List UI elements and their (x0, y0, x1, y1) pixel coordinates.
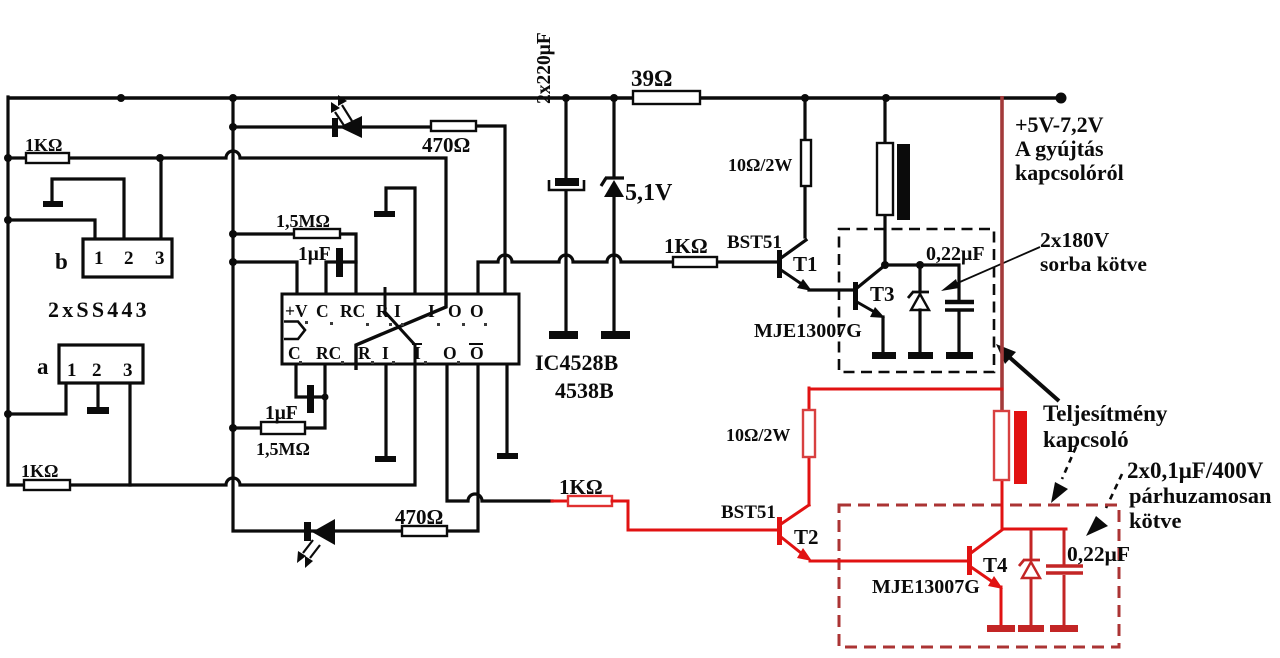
zener D4 triangle (911, 294, 929, 310)
svg-text:470Ω: 470Ω (422, 133, 470, 157)
IC subscript marks (299, 321, 487, 364)
ground bar below IC right (497, 453, 518, 459)
svg-text:O: O (443, 343, 457, 363)
node dot rail x614 (610, 94, 618, 102)
svg-text:10Ω/2W: 10Ω/2W (728, 155, 792, 175)
resistor 1K bottom-left (24, 480, 70, 490)
capacitor 2x220uF top plate (555, 178, 579, 186)
capacitor 1uF top plate bar (336, 248, 343, 277)
resistor 39 ohm (633, 91, 700, 104)
wire bottom ground pin R (384, 364, 387, 456)
svg-text:1KΩ: 1KΩ (664, 234, 708, 258)
node dot rail x233 (229, 94, 237, 102)
transistor T3 base bar (853, 282, 858, 310)
wire zener 5V1 branch (612, 98, 615, 331)
svg-text:4538B: 4538B (555, 378, 614, 403)
node dot zener top (916, 261, 924, 269)
svg-text:1,5MΩ: 1,5MΩ (276, 211, 330, 231)
wire red T4 emitter to ground (1000, 587, 1003, 625)
connector a box (59, 345, 143, 383)
node dot rail x805 (801, 94, 809, 102)
svg-text:I: I (394, 301, 401, 321)
node dot x233 y127 (229, 123, 237, 131)
LED D2 triangle (312, 519, 335, 545)
wire connector-a pin3 down (128, 383, 131, 485)
ground bar zener D4 (908, 352, 933, 359)
transistor T1 collector (781, 240, 806, 258)
wire T3 emitter to ground (881, 317, 884, 352)
wire bottom output to red with hop (447, 364, 552, 501)
svg-text:kötve: kötve (1129, 508, 1182, 533)
wire resistor885 branch (883, 98, 886, 265)
resistor 1.5M top (294, 229, 340, 238)
svg-text:1KΩ: 1KΩ (25, 135, 62, 155)
svg-text:R: R (358, 343, 371, 363)
connector b box (83, 239, 172, 277)
svg-text:C: C (316, 301, 329, 321)
svg-text:b: b (55, 249, 68, 274)
transistor T1 emitter (781, 270, 812, 291)
LED D1 triangle (339, 116, 362, 138)
wire connector-b pin3 up (159, 158, 162, 239)
thick black arrow to dashed box (996, 344, 1059, 401)
LED D1 arrow 2 (331, 102, 345, 127)
wire 10ohm top branch (803, 98, 806, 237)
wire red T2 emitter to T4 base (810, 560, 967, 563)
zener D5 red stem (1030, 529, 1033, 560)
wire long dark red vertical (1000, 96, 1004, 411)
svg-text:10Ω/2W: 10Ω/2W (726, 425, 790, 445)
ground bar T3 (872, 352, 896, 359)
transistor T2 emitter red (781, 537, 812, 561)
wire red top of 10ohm (809, 388, 1002, 391)
svg-text:MJE13007G: MJE13007G (754, 320, 862, 342)
zener D5 red bar (1019, 560, 1040, 566)
wire bottom LED row (306, 529, 402, 532)
capacitor 0.22uF bottom plate (945, 308, 974, 312)
node dot bottom cap junction (322, 394, 329, 401)
svg-text:RC: RC (316, 343, 341, 363)
svg-text:T3: T3 (870, 282, 895, 306)
svg-text:O: O (448, 301, 462, 321)
svg-text:39Ω: 39Ω (631, 66, 672, 91)
svg-text:1: 1 (67, 360, 77, 381)
ground bar below IC left (375, 456, 396, 462)
transistor T4 base bar red (967, 546, 972, 575)
resistor 10ohm 2W top (801, 140, 811, 186)
svg-text:a: a (37, 354, 49, 379)
svg-text:párhuzamosan: párhuzamosan (1129, 483, 1272, 508)
capacitor 2x220uF cup plate (549, 180, 584, 190)
svg-text:IC4528B: IC4528B (535, 350, 618, 375)
transistor T1 base bar (777, 250, 782, 278)
node dot x233 y262 (229, 258, 237, 266)
wire connector-b pin2 to ground (52, 179, 124, 239)
svg-text:1KΩ: 1KΩ (559, 475, 603, 499)
wire T1 emitter to T3 base (809, 288, 853, 291)
wire red from output 1K (552, 500, 568, 503)
dashed box lower red (839, 505, 1119, 647)
svg-text:3: 3 (155, 248, 165, 269)
resistor 470 top (431, 121, 476, 131)
transistor T2 base bar red (777, 517, 782, 545)
node dot rail x566 (562, 94, 570, 102)
LED D1 top cathode bar (332, 118, 338, 137)
zener D4 lower stem (918, 310, 921, 352)
LED D2 bottom cathode bar (304, 522, 311, 541)
zener D3 triangle (604, 180, 624, 197)
wire connector-b pin1 to left bus (8, 220, 95, 239)
resistor red tall right (994, 411, 1009, 480)
svg-text:2x180V: 2x180V (1040, 228, 1110, 252)
red solid bar beside resistor (1014, 411, 1027, 484)
transistor T4 collector red (971, 530, 1002, 553)
ground bar above IC (374, 211, 395, 217)
svg-text:RC: RC (340, 301, 365, 321)
wire +V pin (233, 262, 297, 294)
svg-text:I: I (382, 343, 389, 363)
dashed-stem arrow from Teljesitmeny (1051, 447, 1076, 503)
IC U1 4528 box (282, 294, 519, 364)
ground bar under zener (601, 331, 630, 339)
resistor 1K red (568, 496, 612, 506)
node dot x233 y234 (229, 230, 237, 238)
transistor T2 collector red (781, 505, 809, 524)
svg-text:MJE13007G: MJE13007G (872, 576, 980, 598)
svg-text:kapcsolóról: kapcsolóról (1015, 160, 1124, 185)
resistor 1K mid (673, 257, 717, 267)
svg-text:1μF: 1μF (298, 244, 331, 265)
svg-text:sorba kötve: sorba kötve (1040, 252, 1147, 276)
wire connector-a pin2 to ground (96, 383, 99, 407)
svg-text:2: 2 (92, 360, 102, 381)
svg-text:Teljesítmény: Teljesítmény (1043, 401, 1168, 426)
svg-text:A gyújtás: A gyújtás (1015, 136, 1104, 161)
svg-text:1: 1 (94, 248, 104, 269)
zener D3 5V1 bar (601, 178, 624, 186)
capacitor 0.22uF red stem top (1063, 529, 1066, 565)
node dot y158 x160 (156, 154, 164, 162)
resistor 1.5M bottom (261, 422, 305, 434)
wire top supply rail (8, 96, 1061, 100)
node dot x233 y428 (229, 424, 237, 432)
black bar beside resistor (897, 144, 910, 220)
svg-text:2: 2 (124, 248, 134, 269)
wire cross diagonal A inside IC (385, 287, 415, 364)
overbar O bottom (469, 343, 483, 345)
svg-text:kapcsoló: kapcsoló (1043, 427, 1129, 452)
svg-text:T1: T1 (793, 252, 818, 276)
wire bottom RC pin to 1.5M (305, 364, 325, 428)
wire red 1K to T2 base (612, 501, 777, 530)
svg-text:5,1V: 5,1V (625, 180, 673, 206)
zener D4 bar (908, 292, 929, 298)
wire 1uF top C-pin (326, 262, 356, 294)
wire connector-a pin1 to left bus (8, 383, 66, 414)
transistor T3 collector (857, 266, 884, 288)
svg-text:1KΩ: 1KΩ (21, 461, 58, 481)
svg-text:1μF: 1μF (265, 403, 298, 424)
svg-text:2xSS443: 2xSS443 (48, 297, 150, 322)
capacitor 0.22uF red plates (1046, 566, 1083, 573)
LED D2 arrow 1 (305, 545, 320, 568)
resistor 10ohm 2W bottom red (803, 410, 815, 457)
svg-text:0,22μF: 0,22μF (1067, 542, 1130, 566)
wire y158 from left 1K to IC pin with hop over x233 (8, 151, 446, 294)
ground bar under 220uF (549, 331, 578, 339)
arrow thin from 2x180V to cap (941, 247, 1040, 291)
ground bar red T4 (987, 625, 1015, 632)
svg-text:O: O (470, 343, 484, 363)
svg-text:470Ω: 470Ω (395, 505, 443, 529)
LED D2 arrow 2 (297, 540, 313, 563)
svg-text:+5V-7,2V: +5V-7,2V (1015, 112, 1104, 137)
ground bar cap (946, 352, 973, 359)
ground symbol connector-b pin2 (43, 201, 63, 207)
resistor R885 tall (877, 143, 893, 215)
node dot rail x886 (882, 94, 890, 102)
wire 1.5M top row y234 (233, 234, 356, 294)
zener D5 red lower stem (1030, 578, 1033, 625)
wire R-pin top to ground bar (386, 188, 415, 294)
svg-text:C: C (288, 343, 301, 363)
resistor 1K top-left (26, 153, 69, 163)
transistor T3 emitter (857, 302, 885, 318)
svg-text:2x220μF: 2x220μF (534, 32, 555, 104)
node dot left x8 y158 (4, 154, 12, 162)
dashed-stem arrow from 2x01uF (1086, 474, 1122, 536)
svg-text:T4: T4 (983, 553, 1008, 577)
wire bottom C-pin to cap (296, 364, 326, 397)
zener D4 in box stem (918, 265, 921, 292)
wire red 10ohm stems (808, 388, 811, 505)
transistor T4 emitter red (971, 567, 1003, 589)
wire bottom ground pin O (505, 364, 508, 453)
svg-text:BST51: BST51 (727, 232, 782, 253)
capacitor 0.22uF red lower stem (1063, 575, 1066, 625)
capacitor 0.22uF top plates (945, 300, 974, 305)
svg-text:I: I (428, 301, 435, 321)
svg-text:T2: T2 (794, 525, 819, 549)
wire top LED row y127 (233, 125, 431, 128)
wire x233 vertical supply branch (233, 98, 306, 531)
ground bar red zener (1018, 625, 1044, 632)
REDSECTION (552, 96, 1119, 647)
svg-text:O: O (470, 301, 484, 321)
node dot left x8 y220 (4, 216, 12, 224)
wire red collector node (1002, 480, 1066, 529)
capacitor 1uF bottom bar plate (307, 385, 314, 413)
wire trigger top y262 with hops (478, 255, 779, 294)
IC U1 notch (284, 322, 305, 340)
dashed box upper snubber (839, 229, 994, 372)
svg-text:2x0,1μF/400V: 2x0,1μF/400V (1127, 458, 1264, 483)
ground bar red cap (1050, 625, 1078, 632)
svg-text:BST51: BST51 (721, 502, 776, 523)
node end dot of top rail (1056, 93, 1067, 104)
node dot on rail x121 (117, 94, 125, 102)
resistor 470 bottom (402, 526, 447, 536)
capacitor 0.22uF lower stem (957, 312, 960, 352)
wire bottom LED output pin (447, 364, 478, 531)
wire 470 top to IC pin (476, 126, 505, 294)
wire left vertical bus (6, 97, 9, 485)
svg-text:I: I (414, 343, 421, 363)
wire y485 bottom trigger with hop over x233 (8, 364, 415, 485)
svg-text:0,22μF: 0,22μF (926, 243, 985, 265)
wire 2x220uF cap branch (564, 98, 567, 331)
wire bottom 1.5M to bus (233, 426, 261, 429)
svg-text:R: R (376, 301, 389, 321)
svg-text:+V: +V (285, 301, 308, 321)
node dot T3 collector (881, 261, 889, 269)
overbar I bottom (412, 343, 422, 345)
ground symbol connector-a pin2 (87, 407, 109, 414)
svg-text:1,5MΩ: 1,5MΩ (256, 439, 310, 459)
wire collector row y265 (885, 265, 959, 301)
node dot left x8 y414 (4, 410, 12, 418)
wire cross diagonal B inside IC (356, 294, 446, 370)
LED D1 arrow 1 (338, 95, 352, 121)
WIRES-BLACK (4, 93, 1067, 532)
svg-text:3: 3 (123, 360, 133, 381)
zener D5 red triangle (1022, 562, 1040, 578)
